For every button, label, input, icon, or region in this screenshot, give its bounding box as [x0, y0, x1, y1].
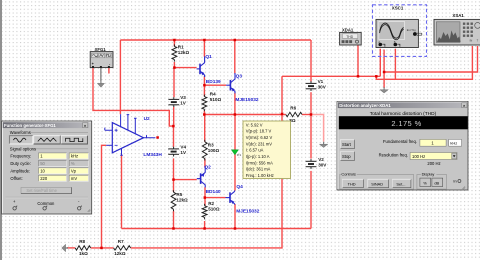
transistor Q2 BD140 (PNP)	[197, 165, 221, 195]
svg-text:Freq.: 1.00 kHz: Freq.: 1.00 kHz	[246, 173, 274, 178]
wire R8 to arrow	[67, 247, 75, 249]
svg-text:R1: R1	[178, 45, 184, 50]
wire V2 top	[310, 115, 312, 159]
wire R1 bottom node	[173, 62, 175, 68]
wire Q1 base	[174, 67, 196, 69]
svg-text:50: 50	[40, 161, 45, 166]
svg-text:V(p-p): 18.7 V: V(p-p): 18.7 V	[246, 129, 272, 134]
resistor R3 100	[202, 142, 207, 159]
junction node	[310, 113, 313, 116]
junction node	[203, 84, 206, 87]
junction node	[234, 113, 237, 116]
transistor Q3 MJE15032	[226, 73, 259, 103]
wire V3 top	[173, 68, 175, 98]
wire R2 bottom	[204, 221, 206, 229]
ground arrow below XFG1 common	[100, 68, 102, 81]
svg-text:Pr1: Pr1	[237, 153, 242, 157]
svg-text:510Ω: 510Ω	[210, 97, 222, 102]
selection dashed box around XSC1	[373, 5, 427, 57]
svg-text:Duty cycle:: Duty cycle:	[10, 161, 30, 166]
svg-text:BD140: BD140	[206, 189, 221, 195]
svg-text:12kΩ: 12kΩ	[176, 198, 188, 203]
wire Q3 base	[204, 84, 226, 86]
junction node	[383, 71, 386, 74]
wire R5 bottom	[173, 211, 175, 229]
wire Q4 emitter down	[234, 204, 236, 229]
svg-text:510Ω: 510Ω	[208, 206, 220, 211]
svg-text:2.175 %: 2.175 %	[391, 119, 421, 128]
svg-text:R8: R8	[79, 239, 85, 244]
svg-text:XSA1: XSA1	[452, 13, 464, 18]
dialog distortion analyzer XDA1	[337, 102, 468, 191]
resistor R1 12k	[172, 46, 177, 59]
probe marker green arrow	[231, 150, 238, 155]
resistor R7 12k	[114, 246, 131, 250]
transistor Q1 BD139	[197, 54, 221, 85]
battery V3 1V	[168, 98, 179, 100]
resistor R5 12k	[171, 192, 176, 209]
probe readout box	[243, 121, 291, 179]
instrument icon XFG1 function generator	[90, 47, 113, 68]
resistor R8 1k	[75, 246, 90, 250]
junction node	[100, 247, 103, 250]
wire V1 bottom to rail	[310, 92, 312, 114]
svg-text:100 Hz: 100 Hz	[412, 154, 425, 159]
svg-text:V4: V4	[180, 144, 186, 149]
junction node	[357, 75, 360, 78]
wire rail to ground arrow	[311, 115, 324, 142]
svg-text:Ext Trig: Ext Trig	[407, 28, 416, 32]
svg-text:1kΩ: 1kΩ	[79, 251, 88, 256]
svg-text:I(rms): 556 mA: I(rms): 556 mA	[246, 160, 273, 165]
wire Q2 collector to R2	[204, 187, 206, 206]
svg-text:Controls: Controls	[341, 172, 356, 177]
wire ext trig ground line	[383, 50, 385, 89]
svg-text:10: 10	[40, 169, 45, 174]
junction node	[172, 125, 175, 128]
svg-text:MJE15032: MJE15032	[236, 208, 260, 214]
svg-text:Q2: Q2	[204, 165, 211, 171]
svg-text:Frequency:: Frequency:	[10, 154, 31, 159]
svg-text:R5: R5	[176, 192, 182, 197]
svg-text:U2: U2	[144, 116, 150, 122]
svg-text:In: In	[453, 179, 456, 184]
junction node	[203, 39, 206, 42]
junction node	[281, 113, 284, 116]
svg-text:12kΩ: 12kΩ	[178, 50, 190, 55]
svg-text:%: %	[423, 180, 427, 185]
resistor R2 510	[202, 206, 207, 218]
junction node	[203, 227, 206, 230]
svg-text:Fundamental freq.: Fundamental freq.	[383, 139, 417, 144]
junction node	[173, 39, 176, 42]
battery V2 30V	[306, 160, 317, 162]
svg-text:mV: mV	[71, 176, 77, 181]
wire R5 top	[173, 180, 175, 192]
junction node	[173, 66, 176, 69]
junction node	[172, 227, 175, 230]
svg-text:V1: V1	[318, 79, 324, 84]
svg-text:kHz: kHz	[71, 154, 78, 159]
wire XDA1 icon input	[357, 45, 359, 76]
svg-text:V(rms): 6.62 V: V(rms): 6.62 V	[246, 135, 273, 140]
wire V4 top	[173, 126, 175, 147]
svg-text:R2: R2	[208, 201, 214, 206]
wire XFG1 - stub	[108, 68, 110, 74]
instrument icon XDA1 distortion analyzer	[340, 28, 362, 45]
svg-text:30V: 30V	[318, 162, 327, 167]
wire Q4 collector up	[234, 115, 236, 191]
svg-text:I(dc): 361 mA: I(dc): 361 mA	[246, 167, 271, 172]
svg-text:Start: Start	[342, 142, 352, 147]
junction node	[234, 39, 237, 42]
svg-text:Offset:: Offset:	[10, 176, 22, 181]
svg-text:I: 6.57 uA: I: 6.57 uA	[246, 148, 264, 153]
wire V4 bottom to Q2 base node	[173, 158, 175, 179]
svg-text:12kΩ: 12kΩ	[114, 251, 126, 256]
wire B line to XSA1 IN	[376, 46, 472, 79]
svg-text:100Ω: 100Ω	[208, 148, 220, 153]
battery V4 1V	[168, 148, 179, 150]
resistor R6 8ohm	[286, 112, 302, 116]
resistor R4 510	[202, 97, 207, 110]
svg-text:V: 5.92 V: V: 5.92 V	[246, 122, 263, 127]
svg-text:Signal options: Signal options	[10, 146, 36, 151]
svg-text:V2: V2	[318, 157, 324, 162]
wire mid output rail	[204, 114, 285, 116]
junction node	[172, 178, 175, 181]
svg-text:Common: Common	[37, 201, 55, 206]
svg-text:V(dc): 231 mV: V(dc): 231 mV	[246, 141, 272, 146]
svg-text:Waveforms: Waveforms	[10, 130, 31, 135]
ground arrow scope	[383, 87, 385, 90]
dialog function generator XFG1	[2, 121, 92, 214]
junction node	[204, 196, 207, 199]
battery V1 30V	[306, 82, 317, 84]
wire op-amp inverting input to feedback	[102, 145, 107, 248]
op-amp U2 LM343H	[105, 114, 163, 158]
svg-text:Amplitude:: Amplitude:	[10, 168, 30, 173]
svg-text:dB: dB	[434, 180, 439, 185]
wire R4 bottom	[203, 111, 205, 115]
wire Q4 base	[205, 197, 226, 199]
wire scope channel B	[394, 49, 396, 80]
ground arrow mid rail	[323, 142, 325, 145]
wire R8 to R7 junction	[91, 247, 114, 249]
junction node	[375, 75, 378, 78]
svg-text:Q3: Q3	[236, 73, 243, 79]
svg-text:BD139: BD139	[206, 79, 221, 85]
svg-text:Total harmonic distortion (THD: Total harmonic distortion (THD)	[370, 111, 437, 117]
svg-text:XSC1: XSC1	[392, 5, 404, 10]
wire op-amp V- drop	[121, 155, 123, 229]
svg-text:Q1: Q1	[205, 54, 212, 60]
ground arrow left of R8	[62, 244, 66, 251]
svg-text:R7: R7	[118, 239, 124, 244]
svg-text:Stop: Stop	[342, 154, 351, 159]
wire Q1 emitter to node	[203, 76, 205, 96]
wire feedback drop x282	[131, 76, 282, 248]
svg-text:1V: 1V	[180, 101, 187, 106]
svg-text:1V: 1V	[180, 150, 187, 155]
svg-text:Distortion analyzer-XDA1: Distortion analyzer-XDA1	[339, 103, 391, 108]
svg-text:V3: V3	[180, 95, 186, 100]
junction node	[203, 113, 206, 116]
wire scope channel A	[379, 49, 381, 77]
wire output sense line A	[282, 75, 380, 77]
svg-text:Set...: Set...	[396, 181, 405, 186]
svg-text:XDA1: XDA1	[342, 28, 354, 33]
wire bottom rail	[122, 228, 312, 230]
svg-text:THD: THD	[348, 181, 356, 186]
junction node	[234, 227, 237, 230]
svg-text:R4: R4	[210, 91, 216, 96]
svg-text:LM343H: LM343H	[143, 152, 162, 158]
transistor Q4 MJE15032	[226, 184, 260, 214]
wire R3 bottom to Q2 emitter	[204, 159, 206, 168]
svg-text:Q4: Q4	[236, 184, 243, 190]
wire op-amp V+ supply drop	[119, 40, 121, 114]
page left border	[0, 0, 2, 260]
svg-text:220: 220	[40, 176, 48, 181]
wire top +30V rail	[120, 39, 311, 41]
wire R3 top	[204, 115, 206, 142]
svg-text:R3: R3	[208, 143, 214, 148]
svg-text:%: %	[71, 161, 75, 166]
svg-text:Display: Display	[422, 172, 435, 177]
wire V3 to V4	[173, 107, 175, 126]
svg-text:Vp: Vp	[71, 169, 77, 174]
instrument icon XSC1 oscilloscope	[376, 5, 422, 47]
svg-text:Function generator-XFG1: Function generator-XFG1	[4, 123, 56, 128]
wire Q3 emitter down	[234, 93, 236, 115]
svg-text:200 Hz: 200 Hz	[427, 161, 440, 166]
svg-text:30V: 30V	[318, 85, 327, 90]
svg-text:THD: THD	[346, 35, 354, 39]
svg-text:I(p-p): 1.10 A: I(p-p): 1.10 A	[246, 154, 270, 159]
svg-text:kHz: kHz	[450, 141, 457, 146]
svg-text:Set rise/Fall time: Set rise/Fall time	[26, 188, 57, 193]
junction node	[156, 136, 159, 139]
wire Q1 collector	[203, 40, 205, 57]
instrument icon XSA1 spectrum analyzer	[434, 13, 480, 45]
svg-text:MJE15032: MJE15032	[235, 97, 259, 103]
svg-text:R6: R6	[290, 105, 296, 110]
wire R1 top	[173, 40, 175, 46]
wire V2 bottom to bottom rail	[310, 171, 312, 229]
wire V1 top from rail	[310, 40, 312, 82]
svg-text:IN: IN	[470, 39, 473, 43]
svg-text:SINAD: SINAD	[371, 181, 383, 186]
wire Q3 collector	[234, 40, 236, 74]
svg-text:Resolution freq.: Resolution freq.	[379, 153, 408, 158]
wire XFG1 + output	[93, 68, 173, 126]
wire Q2 base	[174, 179, 197, 181]
